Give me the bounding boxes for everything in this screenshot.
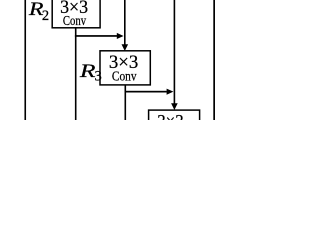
wire: horizontal branch from R3 output to R4 input (125, 91, 167, 93)
wire: vertical input line into R4 box from top (174, 0, 176, 104)
arrowhead right into R3 input line (117, 33, 124, 39)
wire: output of R3 box going down (125, 85, 127, 120)
wire: vertical input line into R3 box from top (124, 0, 126, 45)
svg-text:2: 2 (42, 8, 49, 24)
wire: right-edge skip line (partially cropped) (213, 0, 215, 120)
svg-text:Conv: Conv (112, 70, 137, 85)
wire: skip line from R1 stage (left vertical) (24, 0, 26, 120)
wire: output of R2 box going down (75, 27, 77, 120)
arrowhead down into R3 box (122, 44, 129, 51)
svg-text:Conv: Conv (63, 14, 86, 29)
conv box R2 (top-left, top edge cropped) (52, 0, 100, 29)
conv box R3 (100, 51, 150, 85)
wire: horizontal branch from R2 output to R3 input (75, 35, 117, 37)
conv box R4 (bottom-right, bottom cropped) (149, 110, 200, 144)
label R2 (28, 0, 49, 24)
svg-text:R: R (79, 61, 96, 82)
label R3 (79, 61, 102, 85)
svg-text:3: 3 (95, 68, 102, 84)
svg-text:3×3: 3×3 (157, 111, 184, 120)
arrowhead down into R4 box (171, 103, 178, 110)
arrowhead right into R4 input line (167, 89, 174, 95)
